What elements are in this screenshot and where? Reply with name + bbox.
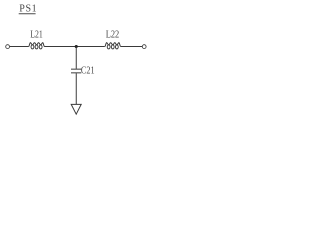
svg-text:L22: L22 <box>106 29 120 40</box>
svg-text:PS1: PS1 <box>19 4 37 15</box>
svg-text:L21: L21 <box>30 29 43 40</box>
svg-text:C21: C21 <box>81 65 95 76</box>
